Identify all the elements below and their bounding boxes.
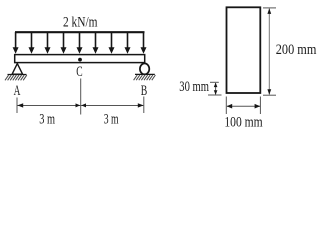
100mm left extension line [225,97,227,115]
100mm arrowhead right [255,104,261,109]
arrowhead at B end [138,103,144,107]
ground line at A [8,74,27,76]
hatching at A [5,75,27,80]
30mm dimension arrows [215,83,217,94]
30mm bottom tick [208,94,222,96]
extension line at C [80,79,82,115]
beam [15,55,145,63]
cross-section rectangle [227,7,261,93]
extension line at A [16,98,18,114]
svg-text:C: C [76,64,82,80]
svg-text:3 m: 3 m [104,112,119,128]
hatching at B [134,75,156,80]
svg-text:30 mm: 30 mm [179,79,209,95]
distributed load top line [15,31,145,33]
ground line at B [135,73,155,75]
load arrows [13,32,147,54]
svg-text:3 m: 3 m [39,112,55,128]
svg-text:A: A [14,83,21,99]
svg-text:100 mm: 100 mm [224,115,263,131]
200mm top tick [263,7,276,9]
pin support at A [12,64,23,75]
point C dot [78,58,82,62]
200mm arrowhead down [267,89,271,95]
arrowhead at A end [17,103,23,107]
dimension line A-C [18,105,81,107]
100mm arrowhead left [227,104,233,109]
100mm dimension line [227,105,260,107]
svg-text:2 kN/m: 2 kN/m [63,15,98,31]
svg-text:200 mm: 200 mm [276,42,317,58]
extension line at B [143,97,145,114]
30mm top tick [210,81,219,83]
roller support at B [140,63,149,74]
200mm dimension line [268,9,270,95]
200mm arrowhead up [267,8,271,14]
100mm right extension line [259,97,261,115]
200mm bottom tick [263,94,276,96]
arrowheads at C [76,103,81,107]
dimension line C-B [81,105,144,107]
